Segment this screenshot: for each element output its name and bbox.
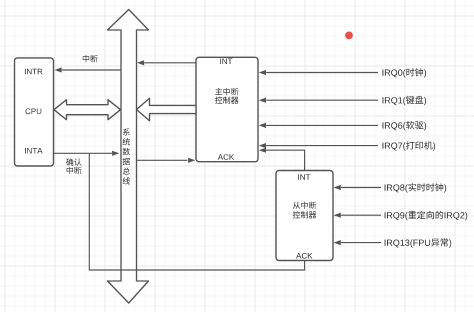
wire IRQ6 <box>259 121 426 131</box>
red marker dot <box>343 29 355 41</box>
label 系统数据总线 vertical <box>123 128 131 184</box>
wire IRQ7 <box>259 141 435 151</box>
master interrupt controller box 主中断控制器 <box>196 57 258 161</box>
label 确认中断 <box>66 158 81 174</box>
wire 中断 bus to CPU INTR <box>55 67 122 72</box>
thick arrow master-bus <box>137 98 197 121</box>
wire 中断 master INT to bus <box>137 60 196 65</box>
wire bus to master ACK <box>137 158 196 163</box>
thick double arrow CPU-bus <box>54 100 121 120</box>
wire INTA CPU to bus <box>54 151 120 156</box>
wire IRQ1 <box>259 96 426 106</box>
wire IRQ13 <box>334 238 452 248</box>
label 中断 <box>83 55 98 62</box>
CPU box <box>15 58 54 166</box>
wire IRQ9 <box>334 211 468 221</box>
bus arrow 系统数据总线 (system data bus) <box>108 10 149 304</box>
slave interrupt controller box 从中断控制器 <box>276 171 333 261</box>
wire IRQ8 <box>334 183 447 193</box>
wire slave INT to master IRQ2 input <box>259 148 305 171</box>
wire IRQ0 <box>259 68 426 77</box>
wire INTA branch down to slave ACK <box>89 153 304 270</box>
